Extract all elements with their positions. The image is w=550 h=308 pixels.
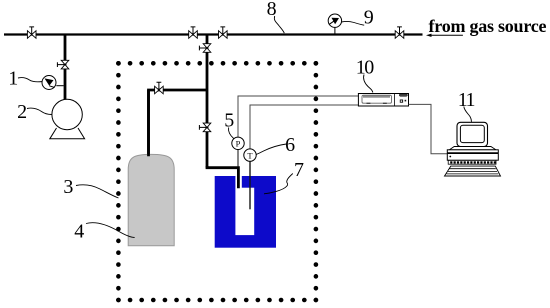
svg-text:T: T [247, 150, 253, 160]
svg-text:9: 9 [364, 7, 374, 29]
pressure gauge 9 [328, 14, 341, 34]
leader 7 [264, 174, 293, 194]
valve V3 on manifold drop [199, 44, 210, 53]
valve V7 on main line (right) [395, 27, 404, 38]
adsorption cell 7 (blue) [215, 176, 276, 248]
svg-text:7: 7 [294, 159, 304, 181]
wire pressure sensor line to DAQ [237, 143, 239, 167]
leader 6 [256, 144, 286, 154]
svg-text:3: 3 [63, 176, 73, 198]
wire temperature probe and line to DAQ [249, 155, 251, 209]
leader 10 [364, 75, 373, 93]
svg-text:11: 11 [458, 89, 475, 111]
main gas line (8) [4, 33, 423, 35]
valve on cylinder branch [155, 82, 164, 94]
wire manifold drop line [206, 35, 209, 168]
wire manifold elbow into cell [207, 166, 238, 188]
svg-text:P: P [236, 138, 241, 148]
svg-text:8: 8 [267, 0, 277, 20]
vacuum gauge 1 [42, 76, 64, 90]
thermostat dotted border right [314, 63, 319, 300]
svg-text:from gas source: from gas source [429, 16, 547, 36]
svg-text:4: 4 [74, 220, 84, 242]
svg-text:5: 5 [224, 109, 234, 131]
valve V2 on pump line [57, 60, 68, 69]
leader 1 [18, 78, 43, 82]
valve V5 on main line (right of tee) [219, 27, 228, 38]
reference cylinder 4 [128, 154, 174, 245]
svg-text:1: 1 [8, 67, 18, 89]
leader 5 [229, 128, 234, 139]
thermostat dotted border left [116, 63, 121, 300]
arrow to line end [426, 34, 463, 37]
svg-text:2: 2 [17, 101, 27, 123]
pressure transducer P (5) [232, 137, 244, 149]
leader 2 [27, 108, 52, 114]
computer 11 [445, 122, 501, 176]
thermostat dotted border bottom [118, 298, 316, 303]
wire pipe into cylinder [147, 90, 150, 156]
valve V4 on main line (left of tee) [189, 27, 198, 38]
valve V6 inside thermostat on manifold [199, 123, 210, 132]
svg-text:6: 6 [285, 134, 295, 156]
leader 3 [76, 185, 119, 198]
svg-text:10: 10 [356, 57, 375, 79]
leader 4 [86, 223, 135, 238]
wire DAQ to computer [409, 104, 448, 153]
leader 11 [464, 107, 472, 122]
leader 9 [341, 21, 364, 25]
DAQ box 10 [358, 94, 408, 107]
leader 8 [274, 16, 284, 33]
valve V1 on main line [27, 27, 36, 38]
thermostat dotted border top [118, 61, 316, 66]
wire branch to reference cylinder [149, 90, 208, 158]
wire pump drop line [64, 35, 67, 101]
thermocouple T (6) [244, 149, 256, 161]
vacuum pump 2 [50, 99, 85, 139]
